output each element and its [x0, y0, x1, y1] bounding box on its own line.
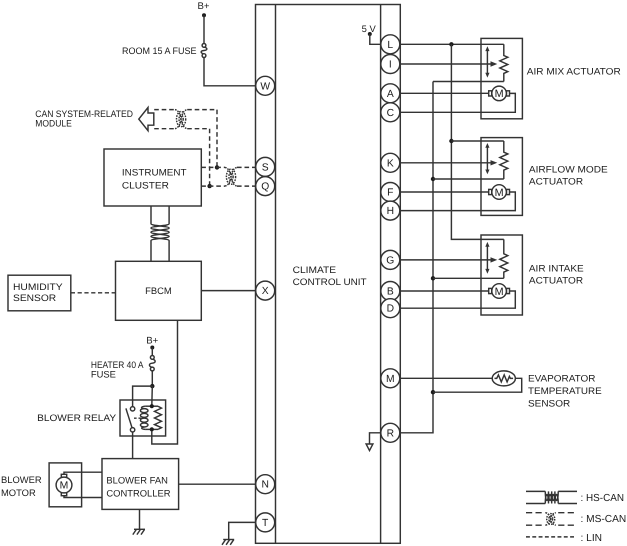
label HEATER 40 A FUSE: [91, 359, 144, 380]
air mix actuator box: [481, 38, 522, 118]
relay mechanical link (dashed): [134, 417, 142, 419]
svg-text:D: D: [387, 304, 394, 315]
junction node 5V rail at airflow branch: [449, 139, 453, 143]
relay switch contact: [126, 407, 135, 432]
svg-text:: HS-CAN: : HS-CAN: [581, 493, 625, 504]
wire fuse to W: [204, 58, 256, 86]
terminal S: [256, 157, 275, 176]
svg-text:ACTUATOR: ACTUATOR: [529, 274, 583, 285]
terminal H: [381, 201, 400, 220]
twisted-pair symbol MS-CAN (S/Q pair): [225, 167, 237, 186]
terminal B: [381, 282, 400, 301]
legend HS-CAN symbol: [526, 491, 577, 503]
label CAN SYSTEM-RELATED MODULE: [35, 108, 133, 129]
svg-text:TEMPERATURE: TEMPERATURE: [528, 385, 602, 396]
junction node ground rail at evaporator sensor return: [431, 390, 435, 394]
node B+ (heater fuse supply): [150, 346, 154, 350]
svg-text:B+: B+: [197, 1, 209, 12]
chassis ground (terminal T): [222, 540, 234, 545]
junction node ground rail at airflow return: [431, 177, 435, 181]
svg-text:AIR INTAKE: AIR INTAKE: [529, 263, 584, 274]
wire MS-CAN pair to CAN module (upper, dashed): [154, 109, 217, 111]
terminal N: [256, 475, 275, 494]
potentiometer (air intake actuator): [500, 239, 508, 278]
terminal M: [381, 369, 400, 388]
wire S (dashed, instrument cluster to terminal S): [201, 166, 255, 168]
wire MS-CAN pair to CAN module (lower, dashed): [154, 128, 209, 130]
svg-text:H: H: [387, 206, 394, 217]
wire blower motor + to controller: [64, 472, 102, 474]
svg-text:: MS-CAN: : MS-CAN: [581, 514, 627, 525]
motor M (blower motor): [56, 474, 72, 495]
label CLIMATE CONTROL UNIT: [293, 264, 367, 287]
wire 5 V to terminal L: [370, 34, 381, 44]
label AIRFLOW MODE ACTUATOR: [529, 164, 608, 187]
airflow mode actuator box: [481, 138, 522, 216]
svg-text:CLUSTER: CLUSTER: [122, 179, 169, 190]
legend MS-CAN symbol: [526, 513, 577, 526]
svg-text:M: M: [495, 286, 504, 298]
wire Q (dashed, instrument cluster to terminal Q): [201, 185, 255, 187]
wire T to chassis ground: [229, 522, 256, 539]
terminal T: [256, 513, 275, 532]
node B+ (room fuse supply): [202, 13, 206, 17]
motor M (air intake actuator): [489, 284, 510, 299]
wire dashed drop CAN module to node on Q wire: [209, 129, 211, 186]
travel arrow (air mix): [485, 46, 489, 77]
travel arrow (air intake): [485, 242, 489, 274]
relay coil with parallel resistor: [140, 404, 161, 431]
wire dashed drop CAN module to node on S wire: [216, 110, 218, 168]
wire blower motor - to controller: [64, 496, 102, 498]
terminal G: [381, 250, 400, 269]
terminal Q: [256, 177, 275, 196]
ground rail (actuators to terminal R): [400, 82, 433, 433]
block arrow to CAN system-related module: [139, 108, 154, 131]
wiper arrow G (air intake): [400, 257, 498, 262]
svg-text:M: M: [495, 187, 504, 199]
label AIR INTAKE ACTUATOR: [529, 263, 584, 286]
wire R to ground: [370, 433, 381, 444]
wire relay switch to blower fan controller: [132, 432, 134, 459]
terminal K: [381, 153, 400, 172]
wire junction to relay switch: [133, 386, 153, 406]
wire F to airflow motor: [400, 191, 489, 193]
svg-text:HUMIDITY: HUMIDITY: [13, 281, 63, 292]
svg-text:CONTROLLER: CONTROLLER: [106, 488, 170, 499]
wire C to air mix motor: [400, 93, 516, 112]
svg-text:MOTOR: MOTOR: [1, 487, 36, 498]
wire H to airflow motor: [400, 192, 516, 211]
terminal L: [381, 35, 400, 54]
junction node below heater fuse: [150, 384, 154, 388]
wire B to air intake motor: [400, 290, 489, 292]
legend LIN symbol: [526, 536, 574, 538]
chassis ground (controller): [133, 529, 145, 534]
junction node ground rail at air intake return: [431, 276, 435, 280]
motor M (air mix actuator): [489, 86, 510, 101]
wire evaporator sensor return to ground rail: [433, 378, 522, 392]
svg-text:C: C: [387, 108, 395, 119]
wire A to air mix motor: [400, 92, 489, 94]
wire airflow potentiometer return to ground rail: [433, 178, 504, 180]
svg-text:K: K: [387, 158, 394, 169]
wiper arrow I (air mix): [400, 61, 498, 66]
terminal R: [381, 423, 400, 442]
blower fan controller box: [102, 459, 179, 510]
svg-text:BLOWER: BLOWER: [1, 474, 42, 485]
FBCM box: [116, 261, 202, 320]
svg-text:Q: Q: [261, 182, 269, 193]
wire humidity sensor to FBCM (dashed LIN): [71, 292, 116, 294]
svg-text:BLOWER FAN: BLOWER FAN: [106, 474, 167, 485]
terminal F: [381, 183, 400, 202]
wire heater fuse to junction: [151, 371, 153, 386]
svg-text:X: X: [262, 286, 269, 297]
svg-text:A: A: [387, 89, 394, 100]
wire air intake potentiometer return to ground rail: [433, 277, 504, 279]
label BLOWER FAN CONTROLLER: [106, 474, 170, 498]
label EVAPORATOR TEMPERATURE SENSOR: [528, 373, 602, 409]
wire N (controller to terminal N): [179, 483, 256, 485]
svg-text:FBCM: FBCM: [145, 285, 172, 296]
svg-text:F: F: [387, 188, 393, 199]
node 5 V supply: [368, 32, 372, 36]
svg-text:EVAPORATOR: EVAPORATOR: [528, 373, 596, 384]
svg-text:FUSE: FUSE: [91, 368, 116, 379]
junction node on S wire: [215, 165, 219, 169]
wire controller to chassis ground: [139, 509, 141, 529]
svg-text:INSTRUMENT: INSTRUMENT: [122, 166, 187, 177]
wire B+ to fuse: [203, 15, 205, 43]
svg-text:I: I: [389, 60, 392, 71]
label BLOWER MOTOR: [1, 474, 42, 498]
twisted-pair symbol MS-CAN (CAN module branch): [175, 110, 187, 129]
air intake actuator box: [481, 235, 522, 315]
svg-text:AIRFLOW MODE: AIRFLOW MODE: [529, 164, 608, 175]
fuse ROOM 15 A FUSE: [201, 44, 207, 58]
svg-text:BLOWER RELAY: BLOWER RELAY: [37, 412, 117, 423]
motor M (airflow mode actuator): [489, 185, 510, 200]
svg-text:L: L: [387, 40, 393, 51]
terminal X: [256, 281, 275, 300]
terminal I: [381, 55, 400, 74]
wire M to evaporator temperature sensor: [400, 377, 492, 379]
svg-text:W: W: [260, 81, 270, 92]
wire L to air mix potentiometer: [400, 43, 504, 45]
terminal W: [256, 76, 275, 95]
wire B+ to heater fuse: [151, 348, 153, 356]
svg-text:G: G: [386, 255, 394, 266]
svg-text:CONTROL UNIT: CONTROL UNIT: [293, 276, 367, 287]
svg-text:AIR MIX ACTUATOR: AIR MIX ACTUATOR: [527, 66, 621, 77]
wire air mix potentiometer return to ground rail: [433, 81, 504, 83]
svg-text:ACTUATOR: ACTUATOR: [529, 176, 583, 187]
terminal C: [381, 103, 400, 122]
svg-text:ROOM 15 A FUSE: ROOM 15 A FUSE: [122, 45, 197, 56]
label HUMIDITY SENSOR: [13, 281, 63, 303]
svg-text:CLIMATE: CLIMATE: [293, 264, 337, 275]
svg-text:: LIN: : LIN: [581, 533, 603, 544]
junction node 5V rail at L wire: [449, 42, 453, 46]
wire FBCM to blower relay coil: [152, 320, 178, 444]
svg-text:SENSOR: SENSOR: [13, 292, 56, 303]
wiper arrow K (airflow mode): [400, 160, 498, 165]
evaporator temperature sensor (thermistor): [492, 371, 515, 386]
svg-text:S: S: [262, 162, 269, 173]
svg-text:M: M: [495, 88, 504, 100]
svg-text:M: M: [60, 481, 69, 492]
wire X (FBCM to terminal X): [201, 290, 255, 292]
wire 5V rail down to air intake actuator: [451, 44, 503, 239]
svg-text:5 V: 5 V: [362, 23, 377, 34]
svg-text:T: T: [262, 518, 269, 529]
junction node on Q wire: [207, 184, 211, 188]
climate control unit outline: [256, 5, 401, 544]
blower relay box: [120, 400, 166, 436]
terminal D: [381, 299, 400, 318]
wire D to air intake motor: [400, 291, 516, 308]
terminal A: [381, 84, 400, 103]
svg-text:B+: B+: [146, 335, 158, 346]
travel arrow (airflow mode): [485, 143, 489, 174]
label INSTRUMENT CLUSTER: [122, 166, 187, 190]
ground symbol (terminal R): [366, 444, 373, 451]
potentiometer (airflow mode actuator): [500, 141, 508, 179]
wire junction to relay coil: [151, 386, 154, 406]
humidity sensor box: [8, 275, 71, 311]
fuse HEATER 40 A FUSE: [149, 356, 155, 371]
HS-CAN twisted pair instrument cluster to FBCM: [151, 206, 169, 261]
svg-text:B: B: [387, 287, 394, 298]
svg-text:MODULE: MODULE: [35, 118, 72, 129]
svg-text:M: M: [386, 374, 395, 385]
svg-text:N: N: [261, 480, 268, 491]
wire 5V rail branch to airflow potentiometer: [451, 140, 503, 142]
svg-text:SENSOR: SENSOR: [528, 398, 570, 409]
svg-text:R: R: [387, 428, 394, 439]
instrument cluster box: [104, 149, 201, 206]
blower motor box: [49, 463, 82, 507]
potentiometer (air mix actuator): [500, 44, 508, 81]
